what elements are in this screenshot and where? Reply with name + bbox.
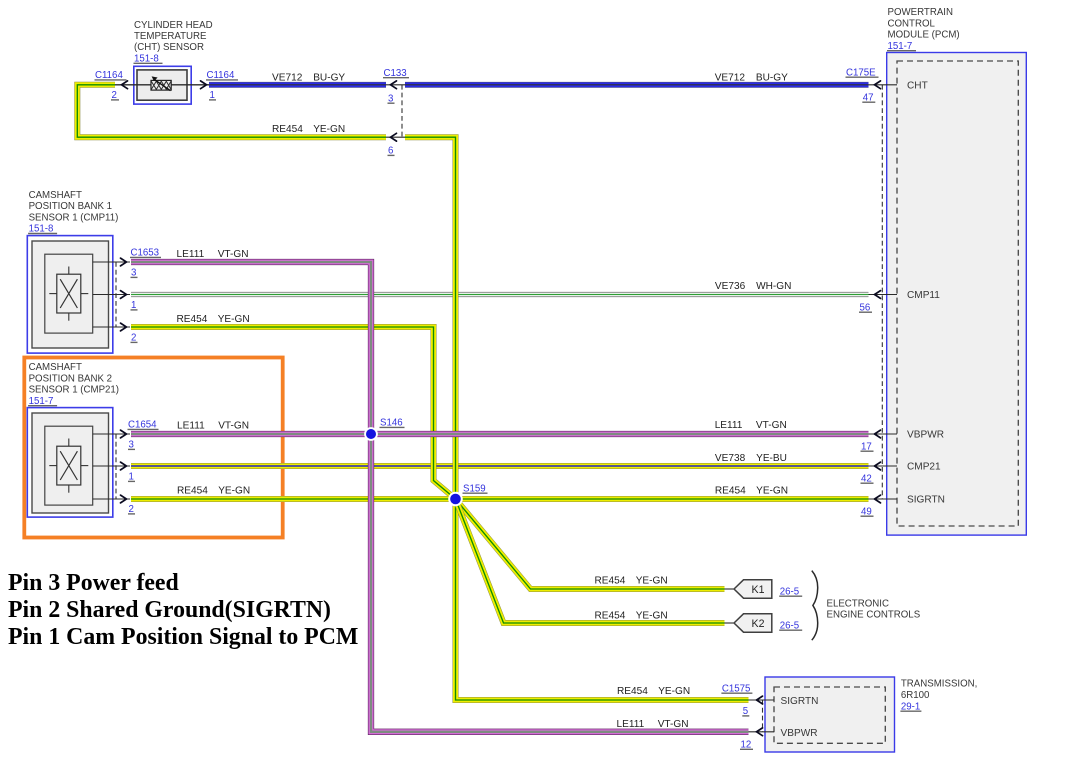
svg-text:SIGRTN: SIGRTN — [907, 495, 945, 506]
svg-text:VE736: VE736 — [715, 281, 746, 292]
splice label S159 — [463, 483, 488, 494]
wire label LE111 VT-GN CMP11 — [177, 249, 249, 260]
splice S146 — [364, 427, 378, 441]
pin 1 CMP11 — [131, 300, 138, 311]
wire stub CMP11 pin row 262 — [93, 261, 130, 263]
pin 47 PCM CHT — [862, 92, 875, 103]
link 151-7 CMP21 — [28, 396, 57, 407]
label PCM name — [888, 7, 960, 40]
connector arrow transmission pin12 — [757, 728, 763, 736]
thermistor RT1 symbol inside CHT sensor — [113, 76, 209, 90]
svg-text:Pin 2 Shared Ground(SIGRTN): Pin 2 Shared Ground(SIGRTN) — [8, 597, 331, 623]
connector arrow CMP11 row 262 — [121, 258, 127, 266]
svg-text:VT-GN: VT-GN — [756, 420, 787, 431]
connector arrow CMP21 row 466 — [121, 462, 127, 470]
connector C133 dashed line — [401, 85, 403, 137]
pin 42 PCM CMP21 — [861, 473, 874, 484]
splice S159 — [448, 492, 463, 507]
wire stub PCM pin row 294.5 — [868, 294, 897, 296]
connector label C1575 — [721, 683, 752, 694]
svg-text:YE-GN: YE-GN — [313, 124, 345, 135]
svg-text:ENGINE CONTROLS: ENGINE CONTROLS — [827, 610, 921, 621]
svg-text:ELECTRONIC: ELECTRONIC — [827, 598, 889, 609]
wire label RE454 YE-GN CMP21 — [177, 486, 250, 497]
svg-text:MODULE (PCM): MODULE (PCM) — [888, 30, 960, 41]
svg-text:LE111: LE111 — [715, 420, 743, 431]
wire stub PCM pin row 499 — [868, 498, 897, 500]
svg-text:SENSOR 1 (CMP11): SENSOR 1 (CMP11) — [29, 212, 119, 223]
wire stub K2 — [724, 622, 735, 624]
sensor CMP21 camshaft position sensor box — [27, 408, 113, 517]
wire RE454 YE-GN S159 to K2 — [456, 499, 725, 623]
svg-text:SENSOR 1 (CMP21): SENSOR 1 (CMP21) — [29, 385, 119, 396]
svg-text:WH-GN: WH-GN — [756, 281, 791, 292]
connector arrow CMP11 row 327 — [121, 323, 127, 331]
pin 3 CMP21 — [128, 440, 135, 451]
wire label RE454 YE-GN K2 — [595, 611, 668, 622]
connector label C1654 — [128, 420, 159, 431]
connector arrow CMP11 row 294.5 — [121, 291, 127, 299]
svg-text:POWERTRAIN: POWERTRAIN — [888, 7, 954, 18]
curly brace electronic engine controls — [812, 571, 818, 641]
wire VE712 BU-GY CHT pin1 to C133 pin3 — [209, 82, 386, 88]
label CMP21 sensor name — [29, 362, 119, 395]
wire label LE111 VT-GN right — [715, 420, 787, 431]
svg-text:6R100: 6R100 — [901, 690, 930, 701]
wire stub PCM pin row 84.8 — [868, 84, 897, 86]
sensor CHT cylinder head temperature sensor box — [134, 66, 191, 104]
connector arrow CHT pin1 — [201, 81, 207, 89]
svg-text:RE454: RE454 — [272, 124, 303, 135]
svg-text:BU-GY: BU-GY — [313, 72, 345, 83]
wire stub PCM pin row 434 — [868, 433, 897, 435]
wire stub CMP21 pin row 499 — [93, 498, 130, 500]
svg-text:TRANSMISSION,: TRANSMISSION, — [901, 679, 977, 690]
pin 56 PCM CMP11 — [859, 302, 872, 313]
svg-text:VT-GN: VT-GN — [658, 719, 689, 730]
label transmission name — [901, 679, 977, 701]
svg-text:LE111: LE111 — [617, 719, 645, 730]
svg-text:LE111: LE111 — [177, 421, 205, 432]
svg-text:POSITION BANK 1: POSITION BANK 1 — [29, 201, 112, 212]
wire stub CMP21 pin row 466 — [93, 465, 130, 467]
pin 6 C133 — [388, 146, 395, 157]
connector arrow CHT pin2 — [122, 81, 128, 89]
wire stub K1 — [724, 588, 735, 590]
svg-text:VBPWR: VBPWR — [907, 430, 944, 441]
svg-text:Pin 3 Power feed: Pin 3 Power feed — [8, 570, 179, 596]
pin 2 CMP21 — [128, 504, 135, 515]
svg-text:RE454: RE454 — [177, 486, 208, 497]
link 26-5 K1 — [779, 586, 802, 597]
svg-text:K1: K1 — [752, 584, 765, 596]
wire RE454 YE-GN CMP21 pin2 to PCM 49 — [131, 496, 869, 502]
wire RE454 YE-GN CMP11 pin2 to S159 — [131, 327, 456, 499]
connector arrow C133 pin3 — [391, 81, 397, 89]
transmission module box 6R100 — [765, 677, 895, 752]
svg-text:CYLINDER HEAD: CYLINDER HEAD — [134, 20, 213, 31]
wire label RE454 YE-GN K1 — [595, 576, 668, 587]
relay tag K1 — [734, 580, 772, 598]
svg-text:CAMSHAFT: CAMSHAFT — [29, 190, 82, 201]
svg-text:POSITION BANK 2: POSITION BANK 2 — [29, 373, 112, 384]
connector C1653 dashed line at CMP11 — [115, 262, 117, 327]
svg-text:YE-BU: YE-BU — [756, 453, 787, 464]
pin 1 CHT — [209, 90, 216, 101]
relay tag K2 — [734, 614, 772, 632]
svg-text:VE738: VE738 — [715, 453, 746, 464]
connector arrow PCM row 434 — [875, 430, 881, 438]
svg-text:VE712: VE712 — [272, 72, 303, 83]
connector arrow CMP21 row 434 — [121, 430, 127, 438]
label CMP11 sensor name — [29, 190, 119, 223]
wire stub PCM pin row 466 — [868, 465, 897, 467]
svg-text:CMP21: CMP21 — [907, 462, 941, 473]
svg-text:VE712: VE712 — [715, 72, 746, 83]
wire LE111 VT-GN CMP11 pin3 to transmission pin12 — [131, 262, 749, 732]
svg-text:TEMPERATURE: TEMPERATURE — [134, 31, 207, 42]
pin 17 PCM VBPWR — [861, 441, 874, 452]
svg-text:RE454: RE454 — [715, 486, 746, 497]
link 151-8 CMP11 — [28, 224, 57, 235]
wire stub CMP21 pin row 434 — [93, 433, 130, 435]
svg-text:YE-GN: YE-GN — [756, 486, 788, 497]
connector arrow PCM row 294.5 — [875, 291, 881, 299]
wire VE736 WH-GN CMP11 pin1 to PCM 56 — [131, 292, 869, 297]
wire label VE736 WH-GN — [715, 281, 792, 292]
link 151-8 CHT — [134, 53, 163, 64]
svg-text:K2: K2 — [752, 618, 765, 630]
svg-text:VT-GN: VT-GN — [218, 249, 249, 260]
svg-text:(CHT) SENSOR: (CHT) SENSOR — [134, 42, 204, 53]
connector C175E dashed line at PCM — [881, 85, 883, 499]
svg-text:YE-GN: YE-GN — [218, 314, 250, 325]
label CHT sensor name — [134, 20, 213, 53]
wire label LE111 VT-GN CMP21 — [177, 421, 249, 432]
svg-text:RE454: RE454 — [595, 611, 626, 622]
connector C1575 dashed line — [762, 700, 764, 732]
pin 2 CMP11 — [131, 333, 138, 344]
wire label RE454 YE-GN right — [715, 486, 788, 497]
svg-text:LE111: LE111 — [177, 249, 205, 260]
svg-text:CONTROL: CONTROL — [888, 18, 936, 29]
connector label C1164 left — [95, 70, 127, 81]
wire stub transmission pin 5 — [748, 699, 774, 701]
wire stub CMP11 pin row 294.5 — [93, 294, 130, 296]
svg-text:YE-GN: YE-GN — [636, 611, 668, 622]
link 26-5 K2 — [779, 620, 802, 631]
connector label C1164 right — [206, 70, 238, 81]
svg-text:CAMSHAFT: CAMSHAFT — [29, 362, 82, 373]
sensor CMP11 camshaft position sensor box — [27, 236, 113, 354]
connector label C133 — [383, 68, 409, 79]
link 151-7 PCM — [887, 41, 916, 52]
wire stub CMP11 pin row 327 — [93, 326, 130, 328]
wire label RE454 YE-GN bottom — [617, 686, 690, 697]
connector arrow C133 pin6 — [391, 133, 397, 141]
wire VE712 BU-GY C133 to PCM 47 — [405, 82, 869, 88]
svg-text:YE-GN: YE-GN — [636, 576, 668, 587]
svg-text:SIGRTN: SIGRTN — [781, 696, 819, 707]
connector arrow PCM row 84.8 — [875, 81, 881, 89]
wire RE454 YE-GN C133 to transmission pin5 — [405, 137, 749, 700]
connector C1654 dashed line at CMP21 — [115, 434, 117, 499]
wire LE111 VT-GN CMP21 pin3 to PCM 17 — [131, 431, 869, 437]
wire label VE712 BU-GY left — [272, 72, 345, 83]
connector arrow CMP21 row 499 — [121, 495, 127, 503]
svg-text:RE454: RE454 — [595, 576, 626, 587]
wire stub C133 pin6 — [386, 136, 405, 138]
op PCM box U1 Powertrain Control Module — [887, 53, 1027, 536]
svg-text:VBPWR: VBPWR — [781, 728, 818, 739]
wire label VE738 YE-BU — [715, 453, 787, 464]
svg-text:YE-GN: YE-GN — [218, 486, 250, 497]
wire label RE454 YE-GN CMP11 — [177, 314, 250, 325]
wire stub C133 pin3 — [386, 84, 405, 86]
wire VE738 YE-BU CMP21 pin1 to PCM 42 — [131, 463, 869, 469]
wire RE454 YE-GN CHT pin2 to C133 pin6 — [77, 85, 386, 137]
splice label S146 — [380, 418, 405, 429]
pin 3 C133 — [388, 93, 395, 104]
wire label VE712 BU-GY right — [715, 72, 788, 83]
svg-text:Pin 1 Cam Position Signal to P: Pin 1 Cam Position Signal to PCM — [8, 624, 358, 650]
connector label C1653 — [130, 248, 161, 259]
pin 2 CHT — [111, 90, 119, 101]
annotation pin notes — [8, 570, 358, 650]
wire stub transmission pin 12 — [748, 731, 774, 733]
svg-text:RE454: RE454 — [177, 314, 208, 325]
link 29-1 transmission — [900, 701, 921, 712]
svg-text:VT-GN: VT-GN — [218, 421, 249, 432]
pin 5 transmission — [742, 706, 749, 717]
pin 3 CMP11 — [131, 268, 138, 279]
connector label C175E — [846, 67, 879, 78]
label electronic engine controls — [827, 598, 921, 620]
connector arrow transmission pin5 — [757, 696, 763, 704]
pin 1 CMP21 — [128, 472, 135, 483]
pin 12 transmission — [740, 739, 753, 750]
svg-text:BU-GY: BU-GY — [756, 72, 788, 83]
svg-text:CMP11: CMP11 — [907, 290, 940, 301]
svg-text:YE-GN: YE-GN — [658, 686, 690, 697]
svg-text:CHT: CHT — [907, 80, 928, 91]
connector arrow PCM row 499 — [875, 495, 881, 503]
connector arrow PCM row 466 — [875, 462, 881, 470]
svg-text:RE454: RE454 — [617, 686, 648, 697]
highlight orange box around CMP21 — [24, 358, 282, 538]
pin 49 PCM SIGRTN — [861, 506, 874, 517]
wire RE454 YE-GN S159 to K1 — [456, 499, 725, 589]
wire label RE454 YE-GN top — [272, 124, 345, 135]
wire label LE111 VT-GN bottom — [617, 719, 689, 730]
